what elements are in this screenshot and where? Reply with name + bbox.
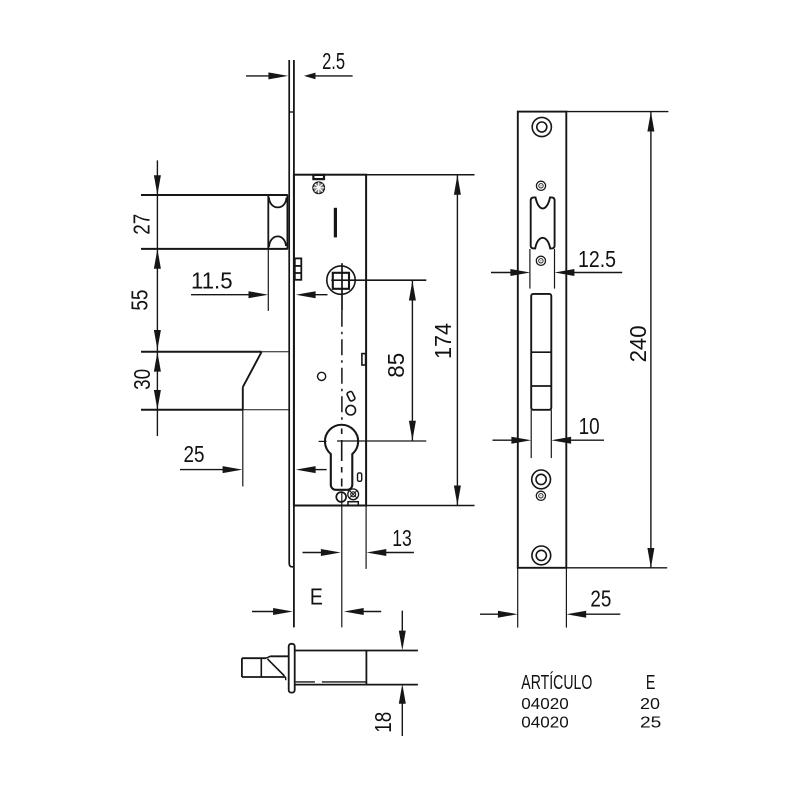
latch head back edge <box>267 195 269 249</box>
latch waist bottom bump arc <box>269 236 286 247</box>
deadbolt bottom edge <box>141 409 243 411</box>
detail ledge segment 2 <box>322 681 367 683</box>
dimension 85 <box>409 281 416 441</box>
latch bolt top edge <box>141 194 288 196</box>
small hole circle <box>318 372 326 380</box>
tilted pin <box>346 391 355 402</box>
latch cutout <box>531 197 555 248</box>
svg-text:12.5: 12.5 <box>578 246 616 272</box>
dimension E <box>252 608 381 615</box>
knurled screw bottom <box>348 489 359 500</box>
knurled screw top <box>313 182 325 194</box>
deadbolt front edge extension for 25 <box>242 410 244 487</box>
plate top edge extension <box>566 111 668 113</box>
deadbolt cutout divider 1 <box>531 351 551 353</box>
deadbolt cutout <box>531 294 551 410</box>
svg-text:11.5: 11.5 <box>191 267 233 293</box>
svg-text:25: 25 <box>184 441 205 467</box>
strike plate outline <box>518 112 567 568</box>
lock case body <box>294 175 366 506</box>
small rounded rect near cylinder <box>358 473 362 481</box>
top screw hole <box>532 117 551 136</box>
12.5 extension lines <box>529 249 531 289</box>
small screw 1 <box>536 181 545 190</box>
svg-text:13: 13 <box>392 525 412 551</box>
vertical dash-dot centerline <box>341 311 343 426</box>
cylinder interior dashed line <box>341 429 343 487</box>
detail latch small step <box>285 677 287 680</box>
svg-text:04020: 04020 <box>521 696 569 713</box>
svg-text:10: 10 <box>579 413 600 439</box>
SECTION: right front view <box>480 112 668 628</box>
case top edge extension line <box>366 174 474 176</box>
svg-text:18: 18 <box>370 712 396 733</box>
faceplate edge (left line) <box>289 60 294 567</box>
detail body top edge <box>295 650 418 652</box>
detail latch head left edge <box>241 658 243 677</box>
follower nut vertical centerline <box>341 263 343 311</box>
euro cylinder profile <box>325 425 358 490</box>
dimension 25 (plate) <box>480 611 620 618</box>
middle screw hole <box>532 470 551 489</box>
detail latch chamfer <box>266 656 270 658</box>
dimension 25 (deadbolt) <box>180 466 327 473</box>
latch head front edge <box>286 195 288 249</box>
ladder tab on case left edge <box>295 258 302 279</box>
detail ledge segment 1 <box>296 681 315 683</box>
top notch tab <box>313 175 324 179</box>
svg-text:30: 30 <box>129 369 155 390</box>
25 extension lines <box>517 568 519 628</box>
svg-text:E: E <box>646 671 656 694</box>
SECTION: left side view <box>127 48 475 736</box>
svg-text:27: 27 <box>129 214 155 235</box>
svg-text:174: 174 <box>430 323 456 359</box>
latch bolt bottom edge <box>141 248 288 250</box>
dimension 11.5 <box>191 291 328 298</box>
small screw 3 <box>536 491 545 500</box>
plate bottom edge extension <box>566 567 667 569</box>
svg-text:2.5: 2.5 <box>322 48 345 74</box>
10 extension lines <box>530 410 532 458</box>
detail latch top line to faceplate <box>270 655 289 657</box>
SECTION: table <box>521 671 661 732</box>
SECTION: bottom detail view <box>242 644 418 693</box>
dimension 174 <box>454 175 461 505</box>
chained dimension line 27/55/30 <box>154 160 161 436</box>
svg-text:ARTÍCULO: ARTÍCULO <box>521 671 592 694</box>
faceplate break tick <box>289 111 294 113</box>
faceplate edge (right line / extension to E dim) <box>293 60 295 627</box>
deadbolt chamfer diagonal <box>243 352 262 387</box>
dimension 10 <box>493 437 605 444</box>
svg-text:25: 25 <box>640 715 662 732</box>
bottom screw hole <box>532 546 551 565</box>
cylinder centerline tick left <box>319 440 327 442</box>
follower nut circle <box>327 266 355 294</box>
dimension 240 <box>647 112 654 568</box>
small circle below pin <box>346 405 356 415</box>
svg-text:55: 55 <box>127 290 153 311</box>
dimension 18 (detail) <box>399 611 406 736</box>
deadbolt top edge thin continuation <box>262 351 289 353</box>
detail faceplate cross-section <box>289 644 295 693</box>
case bottom edge extension line <box>366 505 474 507</box>
detail body bottom edge <box>295 684 418 686</box>
dimension 13 <box>303 549 414 556</box>
dimension 2.5 line right <box>315 75 353 77</box>
small screw 2 <box>536 256 545 265</box>
deadbolt cutout divider 2 <box>531 385 551 387</box>
svg-text:25: 25 <box>590 586 611 612</box>
dimension 2.5 line left <box>246 72 353 79</box>
follower nut horizontal centerline / 85 extension <box>331 279 426 281</box>
cylinder center extension line for 85 <box>337 440 426 442</box>
latch back edge extension for 11.5 <box>267 249 269 311</box>
detail latch bevel diagonal <box>268 659 285 676</box>
svg-text:240: 240 <box>625 325 651 362</box>
detail body end line <box>365 651 367 685</box>
follower nut square <box>333 273 349 289</box>
detail latch head divider <box>260 658 262 677</box>
svg-text:20: 20 <box>640 696 660 713</box>
deadbolt front edge <box>242 387 244 410</box>
svg-text:E: E <box>310 583 323 609</box>
deadbolt top edge <box>141 351 262 353</box>
detail latch head top edge <box>242 657 266 659</box>
follower slot bar <box>334 208 337 238</box>
dimension 12.5 <box>491 269 622 276</box>
detail latch head bottom edge <box>242 676 286 678</box>
small rect on right edge <box>362 354 366 365</box>
svg-text:04020: 04020 <box>521 715 569 732</box>
latch waist top dip arc <box>269 197 287 207</box>
svg-text:85: 85 <box>383 353 409 378</box>
13 extension: case right edge <box>365 506 367 569</box>
centerline extension below cylinder <box>341 492 343 627</box>
small circle at cylinder bottom <box>336 492 346 502</box>
deadbolt bottom edge thin continuation <box>243 409 289 411</box>
small rect on case bottom edge <box>348 502 358 506</box>
